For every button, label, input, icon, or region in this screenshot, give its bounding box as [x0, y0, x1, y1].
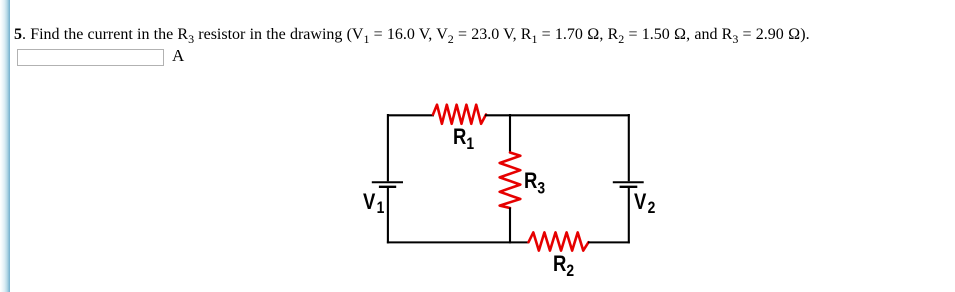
wire right side lower: [628, 188, 630, 244]
wire top-right segment: [485, 114, 630, 116]
battery V2 short plate: [620, 186, 638, 188]
resistor R2: [529, 232, 589, 250]
question text: [14, 26, 810, 44]
battery V2 long plate: [613, 181, 644, 183]
battery V1 long plate: [372, 181, 403, 183]
unit label A: [172, 46, 184, 66]
resistor R3: [500, 153, 521, 209]
battery V1 short plate: [379, 186, 396, 188]
label R3: [524, 170, 545, 197]
resistor R1: [433, 105, 486, 124]
left blue gradient stripe: [0, 0, 10, 292]
wire right side upper: [628, 114, 630, 181]
wire left side lower: [387, 188, 389, 244]
answer input box: [17, 49, 164, 66]
label V2: [634, 191, 655, 217]
wire left side upper: [387, 114, 389, 181]
wire middle branch lower: [509, 208, 511, 244]
wire bottom-left segment: [387, 241, 529, 243]
wire bottom-right segment: [588, 241, 630, 243]
wire top-left segment: [387, 114, 434, 116]
label V1: [363, 191, 384, 217]
label R2: [553, 253, 574, 279]
label R1: [453, 126, 474, 153]
wire middle branch upper: [509, 114, 511, 153]
